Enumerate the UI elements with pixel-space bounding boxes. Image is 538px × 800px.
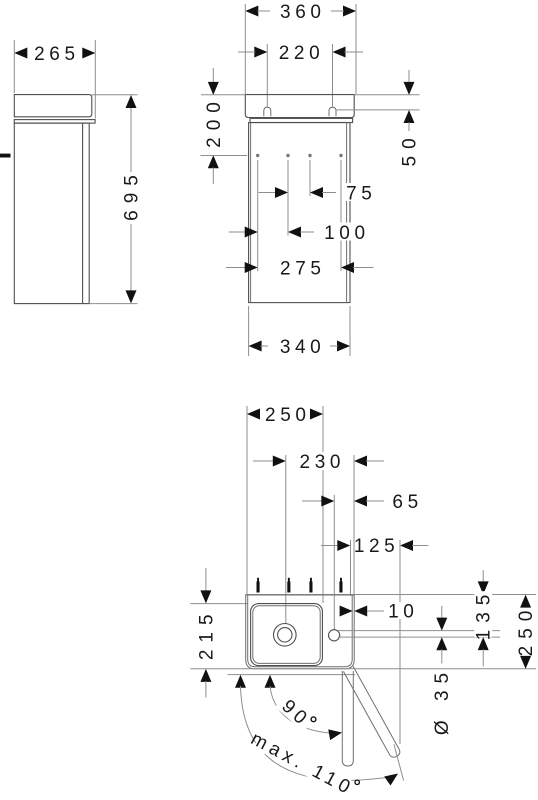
svg-text:275: 275 — [280, 258, 326, 279]
svg-text:135: 135 — [474, 588, 495, 641]
label 90deg — [274, 692, 317, 734]
dim 250 arrows — [247, 409, 260, 420]
plan bolt 3 — [309, 578, 312, 593]
arc max110 start arrow — [235, 675, 246, 688]
holes ref line — [201, 155, 248, 157]
ref line bolts level right — [336, 109, 419, 111]
dim 265 arrow right — [82, 48, 95, 59]
inner bowl plan outer — [251, 604, 323, 666]
dim 250 right — [520, 595, 531, 608]
mounting holes row — [256, 154, 259, 157]
dim 200 line and arrows — [212, 68, 214, 84]
dim 360 tails — [257, 10, 270, 12]
dim 230/65 extension right — [353, 455, 355, 595]
dim 265 extension line left — [13, 40, 15, 93]
dim 360 extension line left — [244, 4, 246, 94]
ref line bottom for 695 — [89, 303, 137, 305]
cabinet front view body — [249, 123, 350, 303]
dim 250 extension left — [246, 406, 248, 594]
dim 65 extension to faucet hole — [333, 495, 335, 630]
svg-text:65: 65 — [392, 492, 422, 513]
dim 220 arrow right outside — [333, 47, 346, 58]
cabinet front door gap right — [346, 123, 348, 303]
dim 100 — [229, 231, 246, 233]
ref line right of basin top — [354, 94, 419, 96]
wall bracket — [0, 154, 11, 158]
ref line left of basin top — [201, 94, 245, 96]
svg-text:10: 10 — [388, 601, 418, 622]
dim 360 arrow right — [343, 6, 356, 17]
arc max110 end arrow — [384, 769, 401, 785]
faucet tangent line bottom — [338, 636, 500, 638]
door closed front line B — [228, 674, 356, 676]
dim 125 extension left (door face) — [350, 540, 352, 596]
plan bolt 2 — [287, 578, 290, 593]
svg-text:230: 230 — [300, 452, 346, 473]
arc 90 degrees — [270, 686, 329, 733]
svg-text:215: 215 — [196, 607, 217, 660]
dim 220 extension line left — [266, 44, 268, 107]
dim 695 line lower tail — [130, 224, 132, 291]
basin rim front view — [250, 118, 353, 122]
dim 65 — [302, 500, 322, 502]
arc max110 — [241, 686, 387, 780]
drain inner circle — [278, 628, 292, 642]
dim 230 — [253, 460, 274, 462]
washbasin outer shell inner line — [248, 595, 353, 667]
bowl back ref line — [190, 603, 247, 605]
dim 125 — [321, 545, 338, 547]
svg-text:220: 220 — [279, 43, 325, 64]
label max110 — [247, 727, 358, 800]
door open 90 degrees — [342, 671, 353, 766]
dim 230 extension to drain — [285, 455, 287, 624]
dim 695 line upper tail — [130, 107, 132, 172]
svg-text:340: 340 — [280, 337, 326, 358]
washbasin outer shell plan — [246, 595, 355, 669]
basin front view — [245, 95, 354, 118]
dim 360 arrow left — [245, 6, 258, 17]
door open 110 degrees — [343, 666, 401, 759]
svg-text:360: 360 — [280, 2, 326, 23]
dim 50 line and arrows — [408, 70, 410, 84]
door edge extension diagonal — [394, 744, 404, 780]
arc 90 degrees start arrow — [265, 675, 276, 688]
dim 695 arrow up — [126, 95, 137, 108]
cabinet side view body — [14, 123, 89, 304]
plan bolt 1 — [257, 578, 260, 593]
dim 360 extension line right — [355, 4, 357, 94]
hanger bolt right front view — [329, 107, 336, 116]
svg-text:125: 125 — [354, 536, 400, 557]
dim 10 arrows nose to nose — [340, 606, 353, 617]
dim 265 extension line right — [94, 40, 96, 119]
faucet tangent line top — [338, 630, 500, 632]
dim 340 extension lines — [248, 306, 250, 356]
inner bowl plan inner — [253, 606, 320, 664]
svg-text:50: 50 — [400, 131, 421, 166]
dim 220 arrow left outside — [254, 47, 267, 58]
svg-text:200: 200 — [204, 95, 225, 148]
svg-text:75: 75 — [346, 183, 376, 204]
svg-text:265: 265 — [34, 44, 80, 65]
svg-text:Ø 35: Ø 35 — [432, 666, 453, 735]
hole extension lines — [257, 160, 259, 271]
ref line top for 695 — [92, 94, 138, 96]
svg-text:250: 250 — [516, 604, 537, 657]
front edge line A — [190, 668, 536, 670]
dim 75 — [259, 192, 277, 194]
arc 90 degrees end arrow — [328, 727, 343, 740]
dim 135 — [482, 570, 484, 583]
hanger bolt left front view — [264, 107, 271, 116]
cabinet front door gap left — [250, 123, 252, 303]
dim 215 — [205, 568, 207, 592]
cabinet side view door edge line — [82, 123, 84, 304]
dim 220 extension line right — [332, 44, 334, 107]
dim 265 arrow left — [14, 48, 27, 59]
dim diameter 35 arrows — [441, 606, 443, 618]
basin rim side view — [14, 120, 95, 124]
drain outer circle — [274, 624, 297, 647]
svg-text:250: 250 — [265, 405, 311, 426]
label diameter 35 — [432, 666, 453, 735]
basin side view — [14, 95, 92, 117]
dim 695 label — [122, 168, 143, 221]
svg-text:100: 100 — [324, 223, 370, 244]
dim 250 label — [263, 405, 307, 423]
svg-text:695: 695 — [122, 168, 143, 221]
faucet hole — [329, 630, 340, 641]
back wall line — [246, 594, 536, 596]
dim 695 arrow down — [126, 290, 137, 303]
dim 275 — [226, 267, 246, 269]
plan bolt 4 — [339, 578, 342, 593]
dim 250 extension right — [322, 406, 324, 603]
dim 340 arrows — [249, 341, 262, 352]
dim 125 extension right — [399, 540, 401, 744]
